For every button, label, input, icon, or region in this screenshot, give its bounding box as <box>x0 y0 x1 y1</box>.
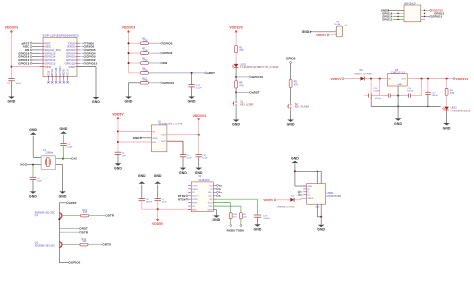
svg-text:GND: GND <box>153 138 158 140</box>
svg-text:1: 1 <box>335 30 336 32</box>
transistor Q1 S8050 <box>59 213 62 219</box>
ground flag above C9 <box>60 131 67 133</box>
svg-text:DTR: DTR <box>108 214 115 218</box>
svg-text:GND: GND <box>59 195 67 199</box>
capacitor C11 10uF <box>196 154 202 156</box>
wire gnd down to USB <box>294 164 296 186</box>
svg-text:17-21/BHC-SL3M2TY/3T_C72043: 17-21/BHC-SL3M2TY/3T_C72043 <box>240 67 279 69</box>
node shield bottom junction <box>320 216 322 218</box>
svg-text:12K: 12K <box>143 60 148 63</box>
wire cap line c <box>411 95 422 97</box>
capacitor C5 47uF <box>180 154 186 156</box>
wire VDD3V3 rail vertical <box>11 33 13 79</box>
ground flag above USB <box>292 161 299 163</box>
svg-text:XI: XI <box>210 189 212 191</box>
node GPIO4 label right <box>81 52 84 54</box>
pin MOSI (ESP bottom, no connect) <box>63 77 65 81</box>
svg-text:RXD: RXD <box>208 203 213 205</box>
wire XO label to crystal <box>27 164 41 166</box>
svg-text:OUT: OUT <box>161 135 166 137</box>
svg-text:IN: IN <box>388 79 391 81</box>
svg-text:VDD5V: VDD5V <box>263 198 273 202</box>
pin GPIO12 (ESP left pin 6) <box>40 59 43 61</box>
resistor R4 470 <box>235 81 238 88</box>
svg-text:RTS#: RTS# <box>178 197 186 201</box>
module U1 ESP-12F body <box>43 38 77 77</box>
pin GPIO2 (ESP right pin) <box>77 59 81 61</box>
LED LED1 <box>234 64 239 67</box>
svg-text:GPIO15: GPIO15 <box>86 61 97 65</box>
svg-text:GND: GND <box>443 127 451 131</box>
ground flag above crystal left <box>30 132 37 134</box>
capacitor C10 100nF <box>387 94 389 98</box>
pin GPIO0 (ESP right pin) <box>77 56 81 58</box>
wire C5 to ground <box>182 157 184 168</box>
svg-text:GND: GND <box>114 167 122 171</box>
wire C12 to ground <box>191 87 193 97</box>
capacitor C8 100nF <box>139 198 145 200</box>
node UD+ label right <box>217 191 219 193</box>
svg-text:XO: XO <box>20 163 25 167</box>
wire R4 to aRST node <box>235 88 237 99</box>
svg-text:GND: GND <box>69 65 75 69</box>
svg-text:GPIO0: GPIO0 <box>286 57 296 61</box>
wire C1 to ground <box>11 81 13 97</box>
ground under LED2 <box>443 123 450 125</box>
svg-text:470: 470 <box>294 83 299 86</box>
wire U4 V3 to C13 <box>213 198 257 200</box>
switch S1 KEY_USER <box>235 99 237 101</box>
wire rail to R8 <box>129 72 141 74</box>
wire S1 to ground <box>235 108 237 119</box>
svg-text:ESP-12F(ESP8266MOD): ESP-12F(ESP8266MOD) <box>43 34 79 38</box>
wire LED1 to GPIO16 node <box>235 67 237 80</box>
wire rail drop 1 <box>370 79 372 94</box>
pin DTR# (U4 left) <box>188 198 191 200</box>
svg-text:MICROUSB: MICROUSB <box>327 195 342 198</box>
wire C9 to XI node <box>63 146 65 159</box>
node aRST junction <box>191 72 193 74</box>
svg-text:0.1uF: 0.1uF <box>196 88 203 90</box>
svg-text:1uF: 1uF <box>122 155 127 157</box>
svg-text:DCD#: DCD# <box>192 196 199 198</box>
node aRST label <box>205 72 207 74</box>
wire cap line b <box>390 95 408 97</box>
wire U4 GND to ground <box>213 209 216 211</box>
wire aRST to Q1 collector <box>59 202 66 204</box>
node GPIO13 label <box>32 62 40 64</box>
LED LED2 power indicator <box>444 107 449 110</box>
svg-text:GND: GND <box>397 84 402 86</box>
wire XO to C4 <box>32 165 34 178</box>
svg-text:GPIO9: GPIO9 <box>55 67 58 76</box>
resistor R8 12K <box>140 72 148 75</box>
wire C6 to ground <box>117 154 119 163</box>
svg-text:12K: 12K <box>143 50 148 53</box>
svg-text:BYP: BYP <box>161 141 166 143</box>
ground under U4 <box>213 215 220 217</box>
node RXD0 label <box>230 219 232 225</box>
svg-text:VDD5V: VDD5V <box>316 33 326 37</box>
resistor R10 470 <box>229 213 232 219</box>
svg-text:GND: GND <box>291 156 299 160</box>
node GPIO5 label right <box>81 49 84 51</box>
wire R12 to ground (GPIO15 pulldown) <box>129 82 141 84</box>
wire aRST net from R8 <box>148 72 205 74</box>
capacitor C12b 100uF output bulk <box>427 79 429 93</box>
pin RXD0 (ESP right pin) <box>77 46 81 48</box>
svg-text:CH340C: CH340C <box>198 178 209 182</box>
svg-text:GPIO13: GPIO13 <box>18 61 29 65</box>
ground flag above C8 <box>139 181 146 183</box>
svg-text:100nF: 100nF <box>373 90 380 92</box>
svg-text:1N4007_C727080: 1N4007_C727080 <box>354 73 373 75</box>
wire R5 to S2 <box>290 88 292 102</box>
pin XO (U4 right) <box>213 184 216 186</box>
wire gnd to crystal case pin <box>32 136 34 158</box>
node VCC bus junction <box>157 208 159 210</box>
ground under USB <box>318 225 325 227</box>
wire D2 to U5 IN <box>364 78 387 80</box>
svg-text:GPIO0: GPIO0 <box>71 261 81 265</box>
ground under C12 <box>188 97 195 99</box>
wire VCC to ESP <box>12 66 44 68</box>
node rail junction <box>427 78 429 80</box>
svg-text:D-: D- <box>308 192 311 194</box>
wire H1 to VDD3V3 label <box>421 9 430 11</box>
svg-text:VDD3V3: VDD3V3 <box>456 77 469 81</box>
pin TXD0 (ESP right pin) <box>77 42 81 44</box>
pin H1-4 no connect <box>421 18 423 20</box>
node GPIO15 label at H1 <box>424 13 426 15</box>
svg-text:S2: S2 <box>295 103 299 106</box>
node ADC label <box>32 46 40 48</box>
svg-text:CM1117-3.3: CM1117-3.3 <box>391 71 406 74</box>
node XI label right <box>217 188 219 190</box>
node GPIO16 label <box>32 52 40 54</box>
pin V3 (U4 right) <box>213 198 216 200</box>
wire gnd to C8 <box>141 185 143 199</box>
svg-text:GND: GND <box>92 100 100 104</box>
svg-text:UD-: UD- <box>208 196 212 198</box>
resistor R2 470 <box>239 213 242 219</box>
capacitor C4 22pF <box>30 176 36 178</box>
resistor R2 12K <box>140 62 148 65</box>
wire U2 OUT to VDD3V3 <box>167 134 199 136</box>
svg-text:GPIO2: GPIO2 <box>163 51 173 55</box>
pin ID (USB1) <box>303 188 306 190</box>
node UD- label right <box>217 195 219 197</box>
power flag VDD3V3 (pull-up rail) <box>127 30 130 32</box>
svg-text:100nF: 100nF <box>407 90 414 92</box>
power flag VDD5V below (CH340 VCC) <box>157 209 159 219</box>
svg-text:DSR#: DSR# <box>192 189 199 191</box>
svg-text:UD+: UD+ <box>208 192 213 194</box>
node TXD0 label right <box>81 42 84 44</box>
wire VDD to U4 VCC <box>190 208 192 210</box>
node rail junction <box>446 78 448 80</box>
ground under C13 <box>254 224 261 226</box>
diode D2 1N4007 <box>361 77 365 81</box>
svg-text:GND: GND <box>133 136 140 140</box>
svg-text:XO: XO <box>209 185 212 187</box>
node Q1 emitter junction <box>58 218 60 220</box>
node OUT junction <box>198 134 200 136</box>
regulator U2 SPX3819M5-L-3.3/TR <box>152 125 167 152</box>
svg-text:CS0: CS0 <box>47 70 50 76</box>
resistor R12 12K <box>140 81 148 84</box>
svg-text:GND: GND <box>8 100 16 104</box>
wire C7 to VCC bus <box>157 201 159 210</box>
power flag VDD3V3 (ESP VCC rail) <box>10 30 13 32</box>
wire to aRST label <box>236 91 250 93</box>
svg-text:RXD0 TXD0: RXD0 TXD0 <box>227 228 245 232</box>
wire U4 TXD to R2 <box>213 205 241 207</box>
pin VCC (U4 left) <box>188 209 191 211</box>
capacitor C13 100nF <box>254 214 261 216</box>
svg-text:GND: GND <box>60 127 68 131</box>
svg-text:GND: GND <box>254 227 262 231</box>
wire LED2 to ground <box>446 110 448 123</box>
node VDD3V3 output label <box>453 78 455 80</box>
svg-text:GND: GND <box>212 218 220 222</box>
node rail junction <box>370 78 372 80</box>
node shield junction <box>294 170 296 172</box>
svg-text:22pF: 22pF <box>67 147 73 149</box>
capacitor C6 1uF (LDO input) <box>115 151 121 153</box>
wire R14 to RTS label <box>88 244 103 246</box>
node TXD0 label <box>240 219 242 225</box>
svg-text:VDD3V3: VDD3V3 <box>193 114 207 118</box>
svg-text:VDD5V: VDD5V <box>330 77 342 81</box>
svg-text:MISO: MISO <box>51 69 54 76</box>
svg-text:SCLK: SCLK <box>66 69 69 76</box>
node rail junction <box>421 78 423 80</box>
wire to GPIO16 label <box>236 76 250 78</box>
svg-text:TY-R05SURC(0603): TY-R05SURC(0603) <box>450 110 470 112</box>
node GPIO16 junction <box>235 76 237 78</box>
pin TXD (U4 right) <box>213 205 216 207</box>
svg-text:VCC: VCC <box>45 65 51 69</box>
wire S2 to ground <box>290 111 292 120</box>
svg-text:VDD3V3: VDD3V3 <box>5 26 19 30</box>
pin GPIO5 (ESP right pin) <box>77 49 81 51</box>
svg-text:TXD: TXD <box>208 206 213 208</box>
svg-text:GND: GND <box>317 228 325 232</box>
pin DSR# (U4 left) <box>188 188 191 190</box>
wire to DTR mid label <box>59 231 79 233</box>
ground ESP right <box>93 97 100 99</box>
svg-text:VCC: VCC <box>192 209 197 211</box>
wire pull-up rail <box>128 33 130 73</box>
svg-text:KEY_USER: KEY_USER <box>240 104 253 106</box>
node RXD0 label right <box>81 46 84 48</box>
svg-text:12K: 12K <box>143 40 148 43</box>
svg-text:10uF: 10uF <box>202 158 208 160</box>
ground under C4 <box>30 191 37 193</box>
svg-text:RTS#: RTS# <box>192 203 198 205</box>
pin RI (U4 left) <box>188 191 191 193</box>
svg-text:XI: XI <box>219 189 222 191</box>
ground under S2 <box>287 120 294 122</box>
svg-text:2: 2 <box>335 33 336 35</box>
svg-text:GND: GND <box>138 174 146 178</box>
svg-text:GND: GND <box>394 122 402 126</box>
pin V3 (U4 left) <box>188 205 191 207</box>
svg-text:SPX3819M5-L-3.3/TR: SPX3819M5-L-3.3/TR <box>159 124 183 126</box>
svg-text:GPIO13: GPIO13 <box>382 18 393 22</box>
IC U4 CH340C body <box>191 182 213 212</box>
pin RST (ESP left pin 1) <box>40 42 43 44</box>
svg-text:GND: GND <box>232 123 240 127</box>
svg-text:470uF: 470uF <box>375 98 382 100</box>
node RTS# label <box>186 198 188 200</box>
ground under C6 <box>115 163 122 165</box>
svg-text:HW05N_C73750: HW05N_C73750 <box>278 206 296 208</box>
pin GND (USB1) <box>303 185 306 187</box>
pin CS0 (ESP bottom, no connect) <box>48 77 50 81</box>
wire shield drop 1 <box>316 171 318 183</box>
pin GPIO9 (ESP bottom, no connect) <box>55 77 57 81</box>
svg-text:470: 470 <box>450 92 455 95</box>
svg-text:WIFI24LP: WIFI24LP <box>404 2 416 5</box>
resistor R14 12K <box>80 243 88 246</box>
wire to U2 IN <box>118 130 152 132</box>
wire U4 RXD to R10 <box>213 202 230 204</box>
wire rail to R7 <box>129 52 141 54</box>
wire R1 to LED1 <box>235 53 237 64</box>
wire ground bus <box>371 105 440 107</box>
svg-text:10uF: 10uF <box>162 202 168 204</box>
pin VBUS (USB1) <box>303 197 306 199</box>
svg-text:VBUS: VBUS <box>308 198 314 200</box>
pin CTS# (U4 left) <box>188 184 191 186</box>
svg-text:12K: 12K <box>143 69 148 72</box>
ground under C11 <box>195 168 202 170</box>
svg-text:12K: 12K <box>143 79 148 82</box>
pin SCLK (ESP bottom, no connect) <box>67 77 69 81</box>
pin RTS# (U4 left) <box>188 202 191 204</box>
node VCC junction <box>11 66 13 68</box>
wire C13 to ground <box>257 217 259 224</box>
svg-text:XO: XO <box>219 185 223 187</box>
node XO label right <box>217 184 219 186</box>
svg-text:S1: S1 <box>240 101 244 104</box>
svg-text:GND: GND <box>125 100 133 104</box>
pin GPIO13 (ESP left pin 7) <box>40 62 43 64</box>
svg-text:DTR: DTR <box>82 230 89 234</box>
wire to U2 EN <box>118 141 152 143</box>
svg-text:+5V: +5V <box>344 25 349 27</box>
svg-text:RTS: RTS <box>105 243 111 247</box>
svg-text:VDD5V: VDD5V <box>112 112 124 116</box>
svg-text:100uF: 100uF <box>432 95 439 97</box>
wire cap line a <box>371 95 388 97</box>
wire rail to R3 <box>129 42 141 44</box>
wire GPIO0 to R5 <box>290 63 292 79</box>
capacitor C7 10uF <box>155 198 161 200</box>
node XO junction <box>32 164 34 166</box>
wire rail to R2 <box>129 62 141 64</box>
svg-text:12K: 12K <box>83 212 88 214</box>
pin GPIO15 (ESP right pin) <box>77 62 81 64</box>
pin GPIO4 (ESP right pin) <box>77 52 81 54</box>
wire ESP GND pin to ground <box>77 66 96 68</box>
node EN label <box>32 49 40 51</box>
node GPIO0 label right <box>81 56 84 58</box>
svg-text:GPIO16: GPIO16 <box>252 75 263 79</box>
svg-text:aRST: aRST <box>207 71 215 75</box>
pin GPIO14 (ESP left pin 5) <box>40 56 43 58</box>
ground under C1 <box>8 97 15 99</box>
wire junction to C12 <box>191 73 193 85</box>
wire shield drop 2 <box>320 171 322 183</box>
wire gnd to C7 <box>157 185 159 199</box>
svg-text:10uF: 10uF <box>16 83 22 85</box>
pin UD- (U4 right) <box>213 195 216 197</box>
svg-text:RI: RI <box>192 192 195 194</box>
wire transistor vertical <box>58 203 60 263</box>
ground flag above C7 <box>154 181 161 183</box>
node cap line junction <box>397 95 399 97</box>
svg-text:OUT: OUT <box>401 79 406 81</box>
svg-text:12MHz: 12MHz <box>45 152 54 155</box>
wire R9 to LED2 <box>446 95 448 106</box>
wire VDD3V3 to R1 <box>235 33 237 45</box>
wire VCC bus to U4 <box>142 208 192 210</box>
wire Q2 base to R14 <box>62 244 80 246</box>
svg-text:EN: EN <box>163 61 167 65</box>
wire R3 to node GPIO0 <box>148 42 161 44</box>
svg-text:DTR#: DTR# <box>178 194 186 198</box>
pin UD+ (U4 right) <box>213 191 216 193</box>
pin GPIO10 (ESP bottom, no connect) <box>59 77 61 81</box>
wire to ground below USB <box>320 217 322 225</box>
node GPIO14 label <box>32 56 40 58</box>
ground under R12 <box>125 97 132 99</box>
pin XI (U4 right) <box>213 188 216 190</box>
wire U5 GND pin down <box>397 86 399 106</box>
connector P1 5V power input <box>336 26 342 37</box>
wire crystal to XI label <box>56 158 72 160</box>
resistor R7 12K <box>140 52 148 55</box>
wire GND to P1 pin1 <box>312 31 336 33</box>
header H1 body <box>404 5 421 22</box>
switch S2 KEY_FLASH <box>290 102 292 104</box>
wire VDD3V3 down to C11 <box>198 120 200 154</box>
wire C4 to ground <box>32 180 34 192</box>
wire VDD5V to D1 <box>276 199 290 201</box>
transistor Q2 S8050 <box>59 242 62 248</box>
wire shield bus <box>295 170 321 172</box>
wire VDD5V rail down <box>117 120 119 152</box>
node gnd bus junction <box>397 105 399 107</box>
node aRST junction at key <box>235 91 237 93</box>
node GPIO2 label right <box>81 59 84 61</box>
pin ADC (ESP left pin 2) <box>40 46 43 48</box>
capacitor C1 10uF <box>8 78 14 80</box>
wire input cap to bus <box>370 97 372 106</box>
pin RXD (U4 right) <box>213 202 216 204</box>
svg-text:GND: GND <box>302 30 310 34</box>
svg-text:12K: 12K <box>82 241 87 243</box>
svg-text:S8050M-350-35C: S8050M-350-35C <box>35 245 56 248</box>
resistor R1 470 <box>235 45 238 52</box>
resistor R3 12K <box>140 42 148 45</box>
svg-text:KEY_FLASH: KEY_FLASH <box>295 106 310 109</box>
svg-text:GND: GND <box>29 128 37 132</box>
pin DCD# (U4 left) <box>188 195 191 197</box>
